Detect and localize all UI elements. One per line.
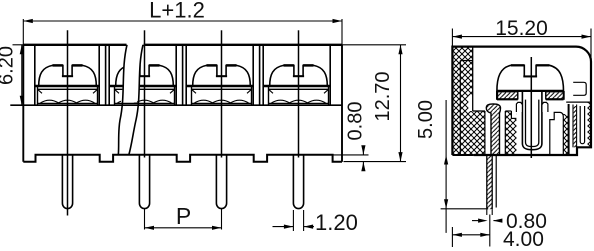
- centerline screw (side view): [530, 57, 532, 158]
- moulding body outline (front view): [23, 45, 342, 162]
- dimension 4.00 (pin offset): [452, 215, 543, 251]
- dome seat line cell 3: [186, 85, 253, 88]
- break line left: [118, 45, 127, 155]
- svg-text:0.80: 0.80: [345, 102, 367, 141]
- washer edge step: [573, 82, 586, 95]
- dimension 5.00 (pin length): [415, 100, 488, 233]
- clamp washer (hatched): [497, 91, 564, 100]
- wall internal step lines: [468, 96, 472, 111]
- dimension P (pitch): [145, 203, 222, 230]
- side wall cross-section (hatched): [452, 47, 472, 155]
- barrier wall lines: [35, 45, 330, 105]
- solder pin P1: [62, 155, 72, 209]
- screw head (side view): [497, 65, 564, 91]
- svg-text:L+1.2: L+1.2: [149, 0, 205, 23]
- solder pin (side, sectioned): [486, 104, 500, 155]
- chamber jaw right: [542, 102, 548, 112]
- break band blank-out: [121, 44, 143, 103]
- break line right: [129, 45, 143, 155]
- pin tail below body: [487, 155, 492, 209]
- solder pin P2: [139, 155, 149, 209]
- dome seat line cell 2: [109, 85, 176, 88]
- dimension 15.20: [452, 17, 591, 60]
- svg-text:1.20: 1.20: [315, 210, 358, 235]
- outer slot: [580, 106, 584, 144]
- solder pin P4: [293, 155, 303, 209]
- screw head S4 (front view dome with slot): [270, 65, 328, 86]
- svg-text:4.00: 4.00: [503, 228, 544, 251]
- wire clamp box C2: [115, 86, 175, 105]
- clamp cavity floor ledge: [10, 104, 342, 106]
- svg-text:12.70: 12.70: [372, 71, 394, 121]
- wire clamp box C3: [192, 86, 252, 105]
- centerline position 1: [67, 30, 69, 215]
- svg-text:P: P: [176, 203, 191, 229]
- right hatched block with wire window: [563, 114, 568, 155]
- dimension 0.80 (pin thickness): [472, 209, 547, 233]
- svg-text:5.00: 5.00: [415, 100, 437, 139]
- dome seat line cell 4: [263, 85, 330, 88]
- screw shank / clamp barrel: [518, 91, 546, 150]
- dome seat line cell 1: [35, 85, 99, 88]
- centerline position 4: [298, 30, 300, 157]
- left hatched block: [473, 111, 485, 155]
- pin channel (white): [484, 111, 486, 155]
- centerline position 3: [221, 30, 223, 157]
- dimension 1.20 (pin width): [273, 210, 358, 235]
- chamber jaw left: [516, 102, 522, 112]
- shoulder line right: [566, 101, 591, 103]
- centerline position 2: [144, 30, 146, 157]
- dimension L+1.2: [23, 0, 342, 45]
- wire clamp box C1: [38, 86, 98, 105]
- dimension 0.80 (foot height): [334, 102, 369, 172]
- screw head S2 (front view dome with slot): [116, 65, 174, 86]
- screw head S1 (front view dome with slot): [39, 65, 97, 86]
- inner hatched block B with step: [505, 111, 516, 155]
- svg-text:6.20: 6.20: [0, 46, 18, 85]
- wire clamp box C4: [269, 86, 329, 105]
- dimension 12.70: [342, 45, 406, 162]
- solder pin P3: [216, 155, 226, 209]
- svg-text:15.20: 15.20: [495, 17, 548, 40]
- body outline (side view): [452, 47, 591, 155]
- dimension 6.20: [0, 45, 24, 105]
- screw head S3 (front view dome with slot): [193, 65, 251, 86]
